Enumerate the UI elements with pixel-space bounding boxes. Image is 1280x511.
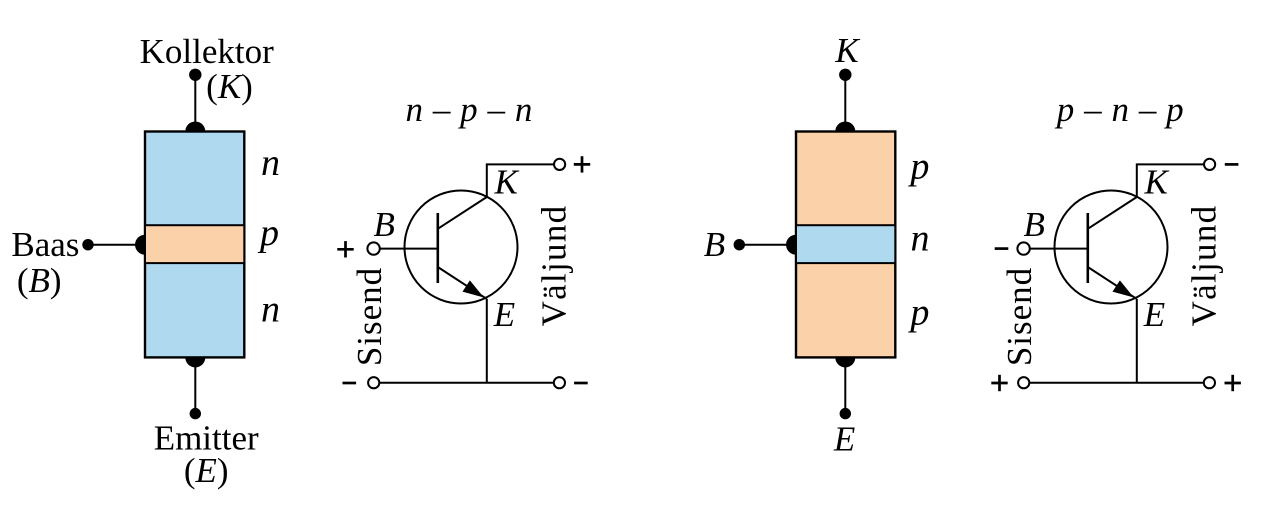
svg-text:K: K (834, 31, 860, 70)
base bar (pnp) (1087, 213, 1090, 283)
node bottom-right terminal (pnp) (1204, 377, 1215, 388)
wire collector to output (pnp) (1137, 164, 1204, 197)
node base input terminal (pnp) (1017, 242, 1029, 254)
wire base lead (left block) (88, 244, 145, 246)
emitter contact bump (left block) (185, 357, 205, 367)
node base terminal dot (left block) (82, 239, 93, 250)
label + (collector output, npn) (574, 163, 590, 166)
node base terminal dot (right block) (734, 239, 745, 250)
base bar (npn) (436, 213, 439, 283)
PNP block n region (middle blue band) (796, 225, 895, 263)
node collector terminal dot (left block) (189, 69, 201, 81)
node collector terminal dot (right block) (839, 69, 851, 81)
svg-text:p: p (907, 292, 929, 334)
label - (bottom-right, npn) (574, 382, 588, 385)
svg-text:Kollektor: Kollektor (140, 32, 274, 71)
emitter line (npn) (438, 267, 487, 299)
node bottom-left terminal (pnp) (1018, 377, 1029, 388)
transistor body circle (pnp) (1055, 191, 1168, 304)
svg-text:Väljund: Väljund (1185, 205, 1224, 327)
svg-text:(E): (E) (184, 451, 229, 490)
svg-text:(B): (B) (17, 261, 62, 300)
wire emitter lead (left block) (194, 357, 196, 413)
svg-text:Sisend: Sisend (1000, 267, 1039, 366)
svg-text:n: n (261, 142, 280, 184)
svg-text:p: p (907, 146, 929, 188)
wire collector lead (right block) (844, 75, 846, 132)
collector line (pnp) (1088, 197, 1137, 229)
emitter contact bump (right block) (835, 357, 855, 367)
collector contact bump (right block) (835, 122, 855, 132)
label + (bottom-left, pnp) (991, 382, 1007, 385)
wire base lead (right block) (739, 244, 796, 246)
node bottom-right terminal (npn) (554, 377, 565, 388)
node bottom-left terminal (npn) (368, 377, 379, 388)
node emitter terminal dot (left block) (190, 408, 201, 419)
collector contact bump (left block) (185, 122, 205, 132)
wire bottom rail (pnp) (1030, 382, 1203, 384)
svg-text:B: B (704, 225, 725, 264)
svg-text:E: E (833, 419, 855, 458)
node emitter terminal dot (right block) (840, 408, 851, 419)
label - (base input, pnp) (995, 247, 1009, 250)
label - (bottom-left, npn) (343, 382, 357, 385)
svg-text:Baas: Baas (11, 225, 79, 264)
wire collector to output (npn) (487, 164, 554, 197)
svg-text:p: p (257, 212, 279, 254)
svg-text:(K): (K) (206, 67, 253, 106)
emitter arrowhead (npn) (463, 280, 484, 297)
emitter arrowhead (pnp) (1113, 280, 1134, 297)
PNP block body (p-n-p sandwich outer rect, p regions orange) (796, 132, 895, 358)
transistor body circle (npn) (405, 191, 518, 304)
wire base (pnp) (1030, 248, 1088, 250)
wire emitter down (pnp) (1136, 299, 1138, 383)
wire base (npn) (380, 248, 438, 250)
NPN block body (n-p-n sandwich outer rect, n regions blue) (145, 132, 244, 358)
emitter line (pnp) (1088, 267, 1137, 299)
NPN block p region (middle orange band) (145, 225, 244, 263)
node collector output terminal (pnp) (1204, 159, 1215, 170)
svg-text:p – n – p: p – n – p (1054, 90, 1184, 129)
node base input terminal (npn) (367, 242, 379, 254)
node collector output terminal (npn) (554, 159, 565, 170)
svg-text:K: K (1144, 163, 1170, 202)
label - (collector output, pnp) (1225, 163, 1239, 166)
svg-text:E: E (1143, 295, 1165, 334)
base contact bump (right block) (786, 235, 796, 255)
svg-text:K: K (494, 163, 520, 202)
base contact bump (left block) (135, 235, 145, 255)
svg-text:n: n (261, 289, 280, 331)
wire emitter lead (right block) (844, 357, 846, 413)
label + (base input, npn) (337, 248, 353, 251)
label + (bottom-right, pnp) (1225, 382, 1241, 385)
svg-text:Sisend: Sisend (350, 267, 389, 366)
svg-text:E: E (493, 295, 515, 334)
wire collector lead (left block) (194, 75, 196, 132)
svg-text:n – p – n: n – p – n (405, 90, 532, 129)
wire emitter down (npn) (486, 299, 488, 383)
wire bottom rail (npn) (380, 382, 553, 384)
collector line (npn) (438, 197, 487, 229)
svg-text:B: B (374, 205, 395, 244)
svg-text:B: B (1024, 205, 1045, 244)
svg-text:Väljund: Väljund (535, 205, 574, 327)
svg-text:n: n (911, 218, 930, 260)
